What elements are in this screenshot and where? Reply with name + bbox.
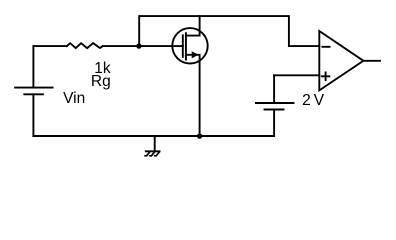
- svg-text:V: V: [314, 92, 325, 109]
- svg-text:Rg: Rg: [91, 73, 111, 90]
- svg-text:2: 2: [302, 92, 311, 109]
- svg-text:Vin: Vin: [63, 90, 85, 107]
